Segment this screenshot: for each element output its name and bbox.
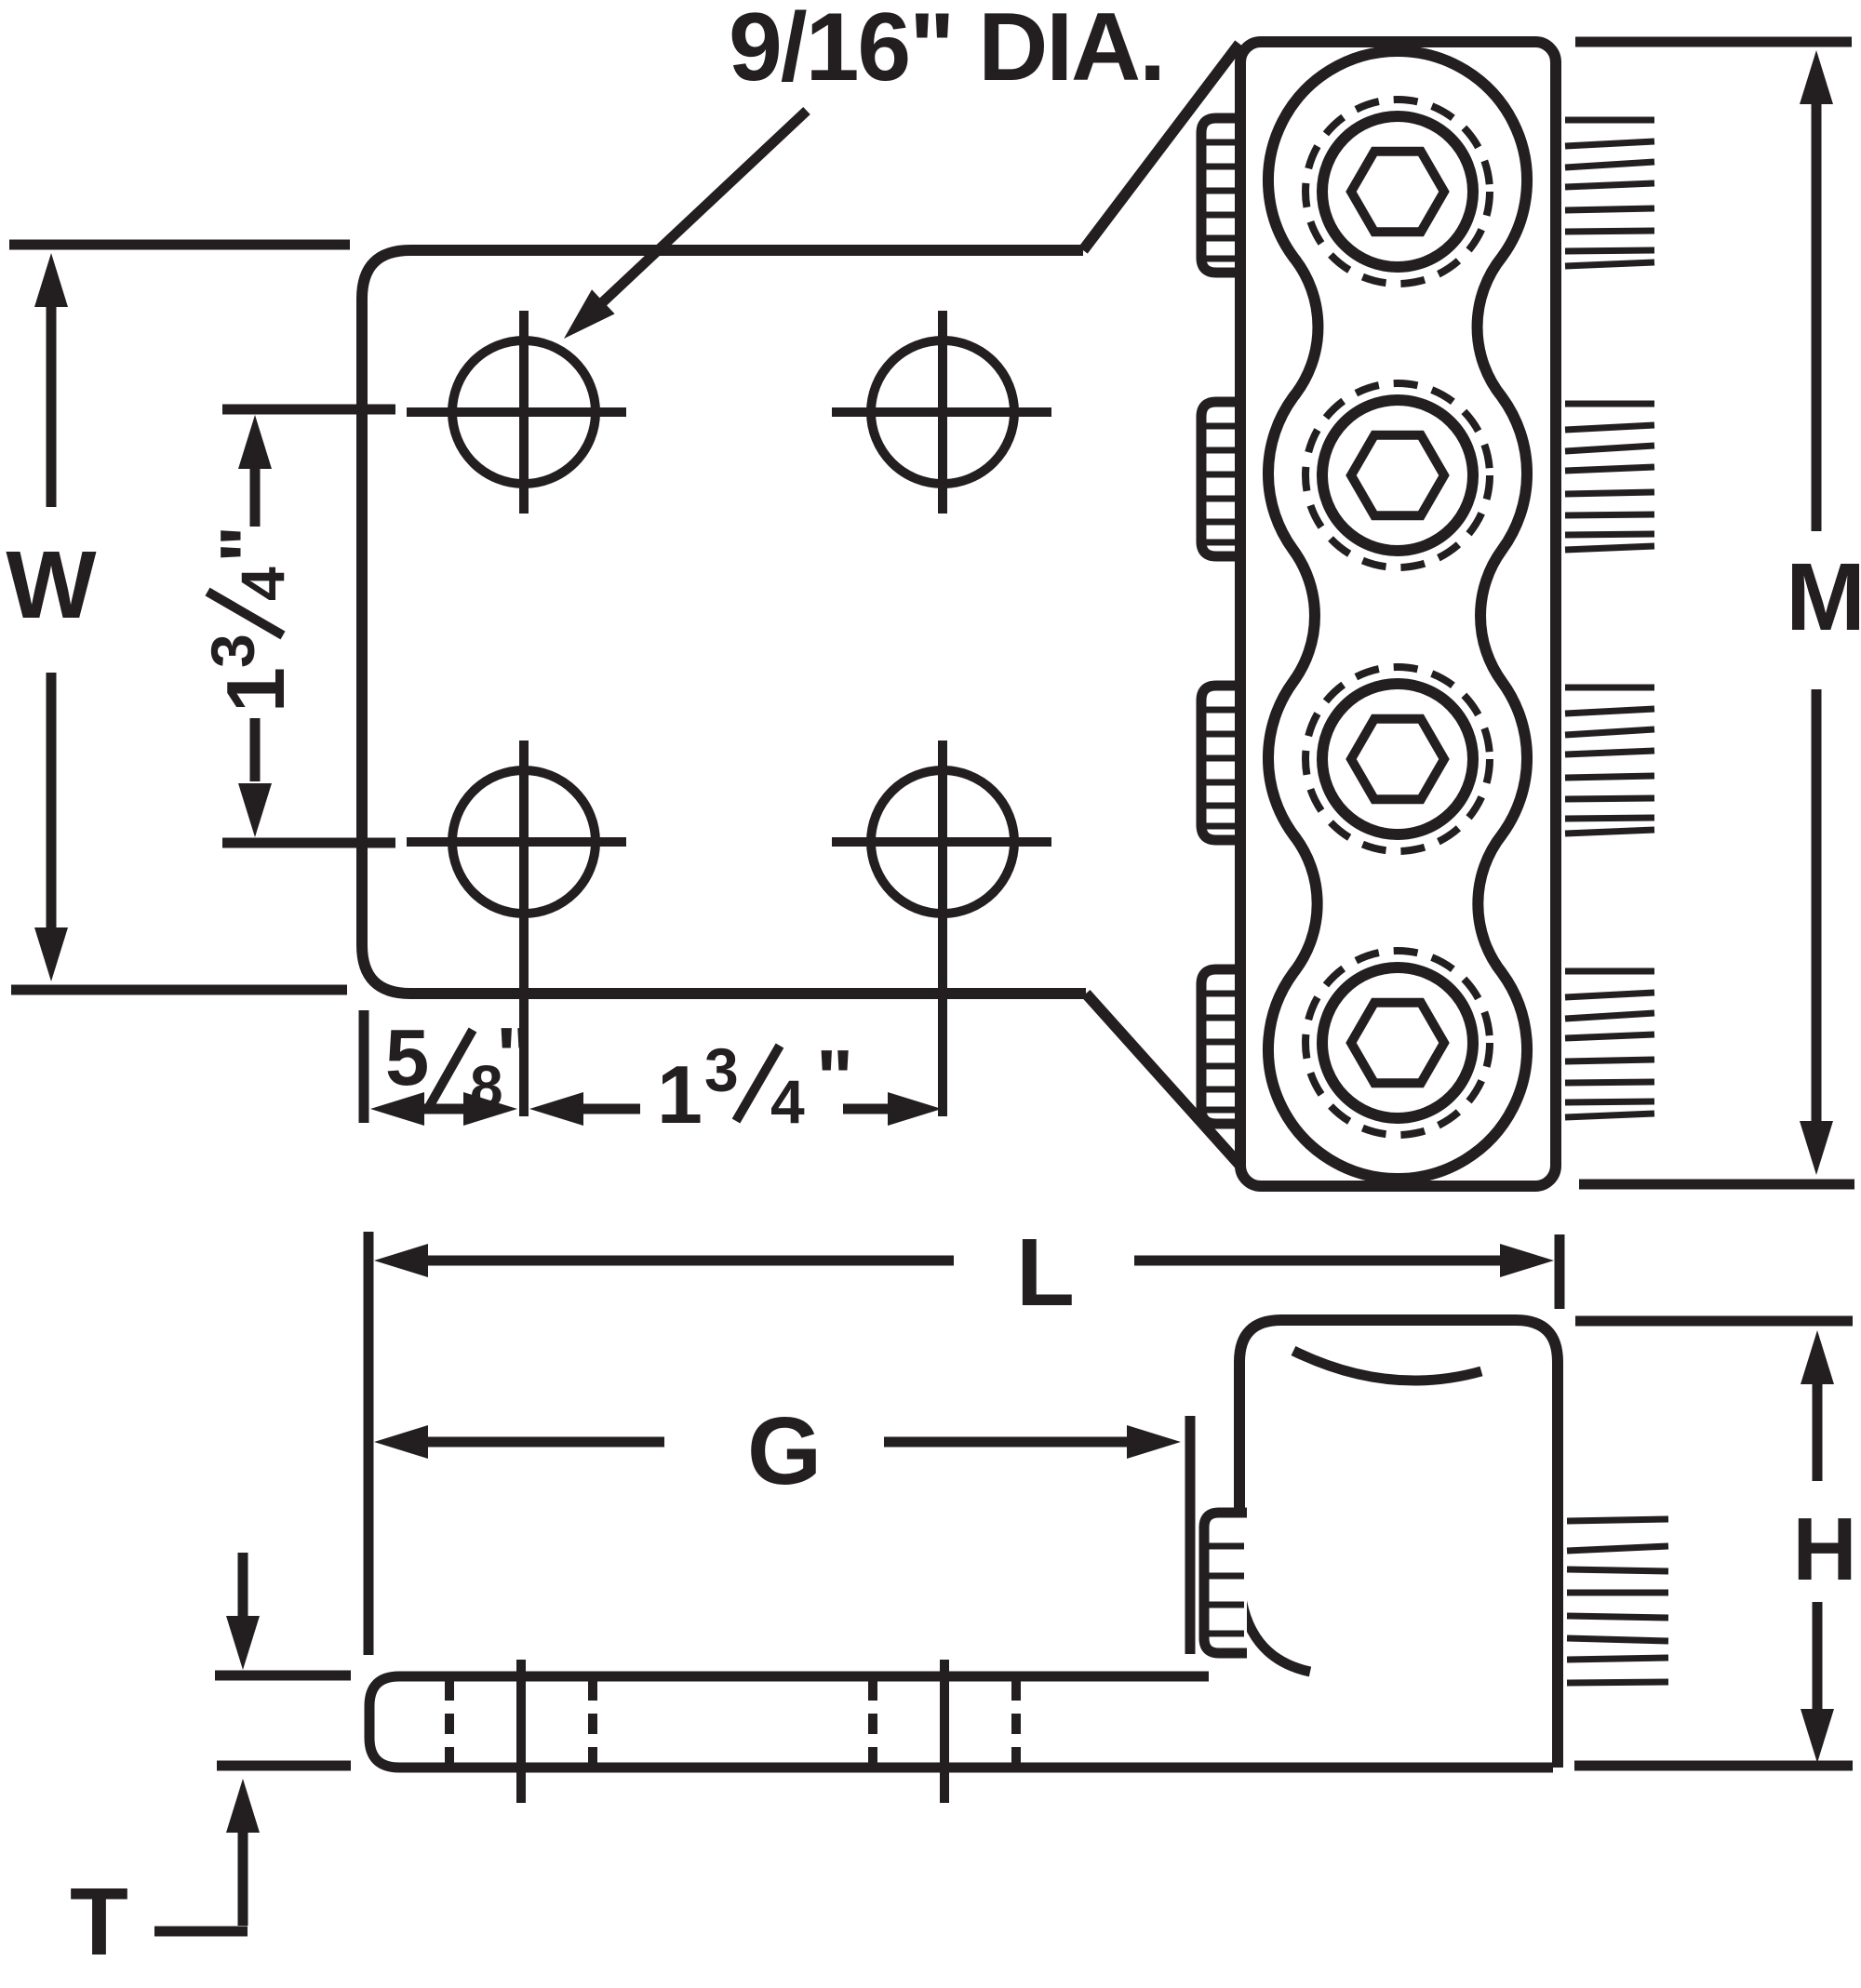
shared L/G left extension line: [364, 1232, 374, 1655]
hole hidden edge dashed line 4: [1011, 1680, 1021, 1764]
W dimension bottom extension line: [11, 985, 347, 995]
serration pad 1 on barrel left face: [1201, 118, 1245, 273]
9/16 leader line: [579, 111, 807, 325]
hole centerline vertical col2 row2 (extends to 1-3/4 dim): [938, 740, 947, 1116]
hole centerline horizontal row1 col1: [407, 407, 626, 417]
hole centerline horizontal row1 col2: [832, 407, 1051, 417]
1-3/4 vert dim arrow up: [238, 415, 272, 469]
serration pad 4 on barrel left face: [1201, 969, 1245, 1124]
svg-text:T: T: [70, 1868, 128, 1975]
1-3/4 vert dim rotated text: [198, 526, 301, 713]
L dimension line left part: [374, 1244, 428, 1277]
1-3/4 vert dim arrow down: [238, 783, 272, 837]
H dimension bottom extension: [1574, 1761, 1853, 1771]
hole hidden edge dashed line 3: [868, 1680, 877, 1764]
conductor strands group 2 (top view): [1565, 401, 1654, 407]
1-3/4 horiz dim arrow right: [888, 1092, 942, 1126]
svg-text:4: 4: [770, 1067, 805, 1136]
1-3/4 vert dim bottom extension: [222, 838, 395, 848]
clamp bolt 1: socket head circle: [1322, 116, 1473, 267]
5/8 dim arrows: [370, 1092, 424, 1126]
mounting hole 3 (9/16" dia): [452, 770, 596, 914]
tongue bar (side view) outline: [369, 1676, 1553, 1768]
M dimension top extension line: [1575, 37, 1852, 47]
M dimension arrow down: [1800, 1121, 1833, 1175]
svg-text:M: M: [1786, 543, 1861, 650]
scalloped clamp body outline: [1268, 51, 1527, 1179]
T arrow down (above bar): [238, 1553, 248, 1616]
clamp bolt 2: socket head circle: [1322, 400, 1473, 551]
hole hidden edge dashed line 2: [588, 1680, 597, 1764]
svg-text:": ": [205, 526, 293, 563]
G right tick: [1185, 1416, 1196, 1654]
T leader elbow: [154, 1927, 248, 1937]
clamp bolt 2: hex socket: [1351, 435, 1444, 516]
svg-text:W: W: [6, 531, 97, 638]
svg-text:1: 1: [657, 1048, 703, 1141]
barrel (side view) outline: [1239, 1320, 1558, 1768]
barrel body (top view rounded rectangle): [1240, 42, 1556, 1186]
serration pad (side view): [1204, 1513, 1247, 1653]
T dimension bottom extension: [217, 1761, 351, 1771]
1-3/4 vert dim top extension: [222, 405, 395, 415]
1-3/4 horiz dim arrow left: [529, 1092, 583, 1126]
svg-text:": ": [816, 1034, 853, 1123]
H dimension arrow down: [1813, 1602, 1823, 1714]
top diagonal plate-to-barrel: [1083, 44, 1239, 250]
mounting hole 4 (9/16" dia): [871, 770, 1014, 914]
svg-text:H: H: [1792, 1500, 1856, 1599]
G dimension line left part: [374, 1425, 428, 1459]
T dimension top extension: [215, 1671, 351, 1681]
hole hidden edge dashed line 1: [445, 1680, 454, 1764]
conductor strands (side view): [1567, 1519, 1668, 1521]
T arrow up (below bar): [226, 1779, 260, 1833]
H dimension arrow up: [1801, 1330, 1834, 1384]
serration pad 2 on barrel left face: [1201, 402, 1245, 556]
conductor strands group 3 (top view): [1565, 685, 1654, 691]
svg-text:L: L: [1016, 1219, 1075, 1326]
svg-text:3: 3: [704, 1035, 739, 1104]
W dimension arrow down: [34, 927, 68, 981]
W dimension arrow up: [34, 253, 68, 307]
svg-text:9/16" DIA.: 9/16" DIA.: [729, 0, 1166, 101]
clamp bolt 3: dashed wrench-clearance circle: [1305, 667, 1490, 851]
hole centerline tick 1 (side view): [516, 1660, 526, 1803]
clamp bolt 1: hex socket: [1351, 152, 1444, 233]
hole centerline horizontal row2 col2: [832, 837, 1051, 847]
svg-text:4: 4: [228, 567, 297, 601]
M dimension arrow up: [1800, 50, 1833, 104]
svg-text:1: 1: [209, 667, 301, 713]
clamp bolt 3: hex socket: [1351, 719, 1444, 800]
W dimension top extension line: [9, 240, 350, 250]
bottom diagonal plate-to-barrel: [1086, 994, 1240, 1166]
svg-text:G: G: [747, 1397, 822, 1504]
L right tick: [1555, 1234, 1565, 1309]
hole centerline horizontal row2 col1: [407, 837, 626, 847]
H dimension top extension: [1575, 1316, 1853, 1327]
conductor strands group 1 (top view): [1565, 117, 1654, 124]
clamp bolt 1: dashed wrench-clearance circle: [1305, 100, 1490, 284]
hole centerline vertical col1 row2 (extends to 5/8 dim): [519, 740, 529, 1116]
clamp bolt 4: hex socket: [1351, 1003, 1444, 1084]
hole centerline vertical col2 row1: [938, 311, 947, 514]
svg-text:3: 3: [198, 634, 267, 668]
conductor strands group 4 (top view): [1565, 968, 1654, 975]
barrel-to-palm fillet curve: [1239, 1583, 1310, 1672]
mounting hole 1 (9/16" dia): [452, 340, 596, 484]
9/16 leader arrowhead: [564, 289, 615, 339]
hole centerline tick 2 (side view): [940, 1660, 949, 1803]
svg-text:": ": [496, 1012, 533, 1101]
G dimension line right part: [884, 1437, 1127, 1448]
clamp bolt 4: socket head circle: [1322, 967, 1473, 1118]
5/8 dim left extension line: [359, 1010, 369, 1123]
mounting hole 2 (9/16" dia): [871, 340, 1014, 484]
serration pad 3 on barrel left face: [1201, 686, 1245, 840]
clamp bolt 4: dashed wrench-clearance circle: [1305, 951, 1490, 1135]
svg-text:5: 5: [385, 1014, 429, 1102]
clamp bolt 2: dashed wrench-clearance circle: [1305, 383, 1490, 567]
clamp bolt 3: socket head circle: [1322, 684, 1473, 834]
hole centerline vertical col1 row1: [519, 311, 529, 514]
L dimension line right part: [1134, 1256, 1500, 1266]
top view: mounting pad plate outline: [362, 250, 1086, 994]
M dimension bottom extension line: [1579, 1180, 1854, 1190]
barrel mouth arc (wire entry): [1293, 1351, 1481, 1381]
